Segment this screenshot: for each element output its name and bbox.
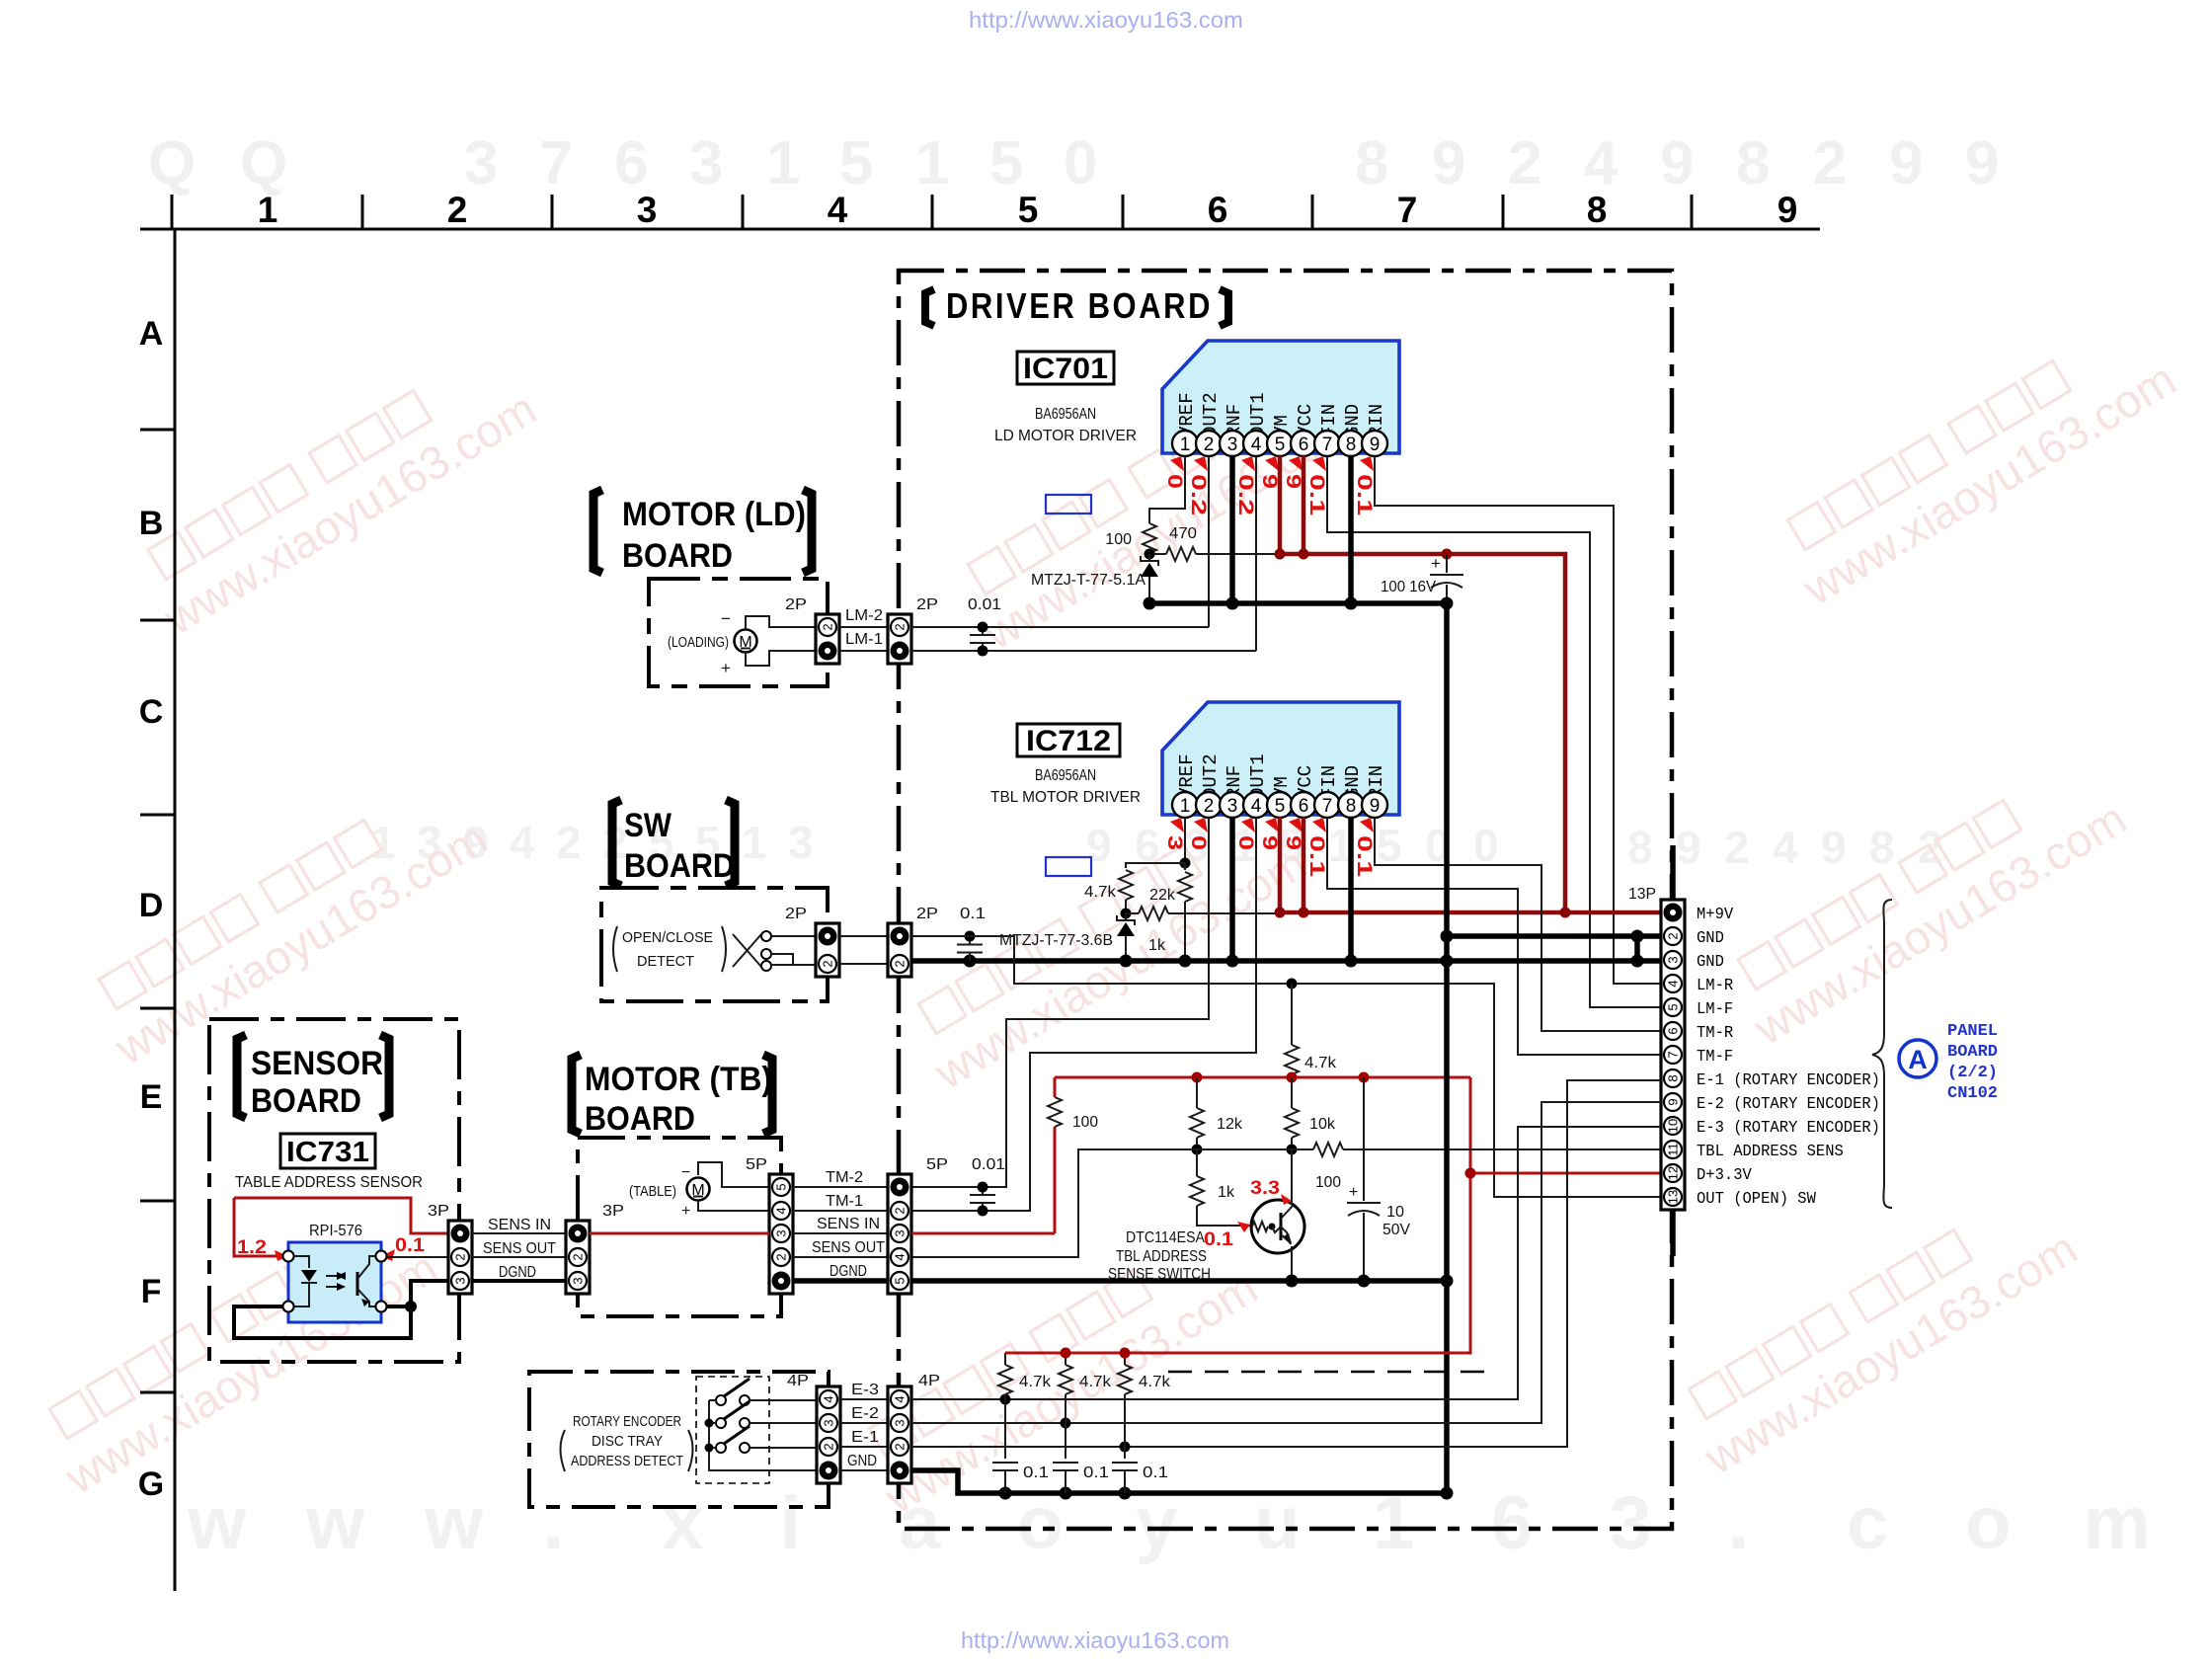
svg-text:2P: 2P [785, 906, 807, 922]
svg-text:.: . [543, 1481, 564, 1565]
svg-text:3P: 3P [602, 1203, 624, 1220]
opto-isolator IC731 RPI-576 [288, 1242, 381, 1322]
wire E-1 to 13P pin8 [911, 1080, 1661, 1447]
wire LM-1 to IC701 OUT1 [911, 650, 1256, 652]
IC712 label box [1017, 724, 1120, 756]
wire IC701 pin5 VM (red) [1278, 456, 1283, 554]
svg-text:2: 2 [822, 1443, 836, 1450]
svg-text:(2/2): (2/2) [1947, 1064, 1998, 1082]
svg-text:A: A [139, 315, 164, 353]
svg-text:BOARD: BOARD [622, 537, 733, 575]
svg-text:4P: 4P [918, 1373, 940, 1389]
svg-text:3: 3 [1610, 1481, 1651, 1565]
svg-text:0.01: 0.01 [972, 1156, 1005, 1173]
resistor 1k (horizontal) [1126, 912, 1139, 914]
svg-text:5: 5 [1275, 796, 1286, 817]
svg-text:http://www.xiaoyu163.com: http://www.xiaoyu163.com [961, 1627, 1229, 1653]
svg-text:2: 2 [774, 1253, 789, 1260]
svg-text:0: 0 [1473, 820, 1499, 871]
svg-text:IC701: IC701 [1023, 353, 1108, 385]
zener diode MTZJ-T-77-3.6B [1117, 915, 1135, 925]
opto LED [288, 1256, 309, 1268]
svg-text:5: 5 [1377, 820, 1402, 871]
encoder switches [716, 1395, 726, 1405]
svg-text:2: 2 [1813, 129, 1847, 198]
pink diagonal watermarks [130, 342, 545, 645]
svg-text:E-3: E-3 [851, 1382, 879, 1398]
svg-text:LD MOTOR DRIVER: LD MOTOR DRIVER [994, 428, 1137, 444]
row letters A-G [138, 315, 164, 1503]
svg-text:3: 3 [893, 1229, 908, 1236]
svg-text:2: 2 [556, 817, 582, 868]
wire IC701 pin4 OUT1 to LM-1 [1255, 456, 1257, 651]
svg-text:0: 0 [1163, 474, 1186, 489]
resistor 4.7k pull-up (SW line) [1291, 984, 1293, 1045]
PANEL BOARD CN102 label [1947, 1022, 1998, 1103]
red wire sensor to 3P SENS IN [234, 1198, 448, 1233]
ground jog to 13P pin2 [1634, 936, 1640, 961]
svg-text:SW: SW [624, 807, 672, 844]
svg-text:3: 3 [689, 129, 723, 198]
IC712 pin names [1176, 753, 1387, 799]
zener diode MTZJ-T-77-5.1A [1141, 556, 1158, 566]
svg-text:5: 5 [839, 129, 873, 198]
svg-text:3: 3 [571, 1277, 586, 1284]
svg-text:9: 9 [1889, 129, 1923, 198]
svg-text:12k: 12k [1217, 1116, 1243, 1133]
svg-text:MOTOR (LD): MOTOR (LD) [622, 496, 806, 533]
svg-text:4.7k: 4.7k [1139, 1374, 1171, 1390]
svg-text:BA6956AN: BA6956AN [1035, 406, 1096, 423]
wire IC712 pin4 OUT1 to TM-1 [911, 818, 1256, 1211]
svg-text:MTZJ-T-77-3.6B: MTZJ-T-77-3.6B [999, 932, 1113, 949]
wire IC712 pin6 VCC (red) [1302, 818, 1306, 912]
svg-text:5: 5 [893, 1277, 908, 1284]
opto light arrows [326, 1275, 344, 1277]
svg-text:3: 3 [1666, 956, 1681, 963]
svg-text:1k: 1k [1218, 1184, 1235, 1201]
transistor collector wire [1291, 1149, 1293, 1205]
red SENS IN riser with resistor 100 [1054, 1127, 1057, 1233]
svg-text:+: + [681, 1203, 690, 1220]
red wire SENS IN from 3P to 5P [590, 1232, 769, 1235]
pull-up resistors 4.7k x3 [1004, 1353, 1006, 1365]
top ruler line [140, 228, 1820, 231]
svg-text:1: 1 [915, 129, 949, 198]
svg-text:1: 1 [1180, 796, 1191, 817]
svg-text:2P: 2P [785, 596, 807, 613]
svg-text:4: 4 [774, 1207, 789, 1214]
svg-text:2P: 2P [916, 906, 938, 922]
svg-text:4: 4 [893, 1395, 908, 1402]
svg-text:8: 8 [1346, 796, 1357, 817]
svg-text:LM-1: LM-1 [845, 631, 883, 648]
svg-text:w: w [424, 1481, 484, 1565]
svg-text:3: 3 [1227, 435, 1238, 455]
svg-text:0.1: 0.1 [1143, 1465, 1168, 1481]
svg-text:TM-1: TM-1 [826, 1193, 863, 1210]
capacitor 10uF 50V [1363, 1077, 1365, 1201]
svg-text:9: 9 [1965, 129, 1999, 198]
svg-text:8: 8 [1587, 190, 1608, 230]
svg-text:TM-R: TM-R [1697, 1023, 1733, 1042]
svg-text:(TABLE): (TABLE) [629, 1183, 676, 1200]
dashed guide line [1168, 1371, 1485, 1374]
svg-text:470: 470 [1169, 525, 1197, 542]
DRIVER BOARD title [925, 289, 934, 326]
svg-text:9: 9 [1282, 474, 1304, 489]
wire E-2 to 13P pin9 [911, 1102, 1661, 1423]
svg-text:2: 2 [821, 623, 835, 630]
svg-text:5P: 5P [926, 1156, 948, 1173]
rotary encoder board outline [529, 1372, 829, 1507]
svg-text:2: 2 [893, 1443, 908, 1450]
wire IC712 pin1 VREF node [1184, 818, 1186, 863]
svg-text:7: 7 [539, 129, 573, 198]
svg-text:5: 5 [774, 1183, 789, 1190]
svg-text:B: B [139, 505, 164, 542]
connector 2P (driver board, SW) [888, 923, 911, 977]
red D+3.3V rail [1055, 1076, 1470, 1079]
svg-text:E: E [140, 1078, 163, 1116]
svg-text:0: 0 [1064, 129, 1097, 198]
op-amp/driver IC U-IC712 BA6956AN block [1162, 702, 1399, 815]
connector 2P (SW board) [816, 923, 839, 977]
svg-text:ADDRESS DETECT: ADDRESS DETECT [571, 1453, 683, 1469]
svg-text:2: 2 [1724, 822, 1750, 873]
svg-text:3.3: 3.3 [1250, 1178, 1280, 1199]
wire IC701 pin8 GND to ground [1348, 456, 1354, 603]
svg-text:0.1: 0.1 [395, 1235, 425, 1256]
svg-text:6: 6 [1491, 1481, 1533, 1565]
svg-text:9: 9 [1666, 1098, 1681, 1105]
svg-text:9: 9 [1282, 835, 1304, 850]
svg-text:TBL ADDRESS: TBL ADDRESS [1116, 1248, 1207, 1265]
svg-text:8: 8 [1666, 1074, 1681, 1081]
svg-text:1: 1 [1180, 435, 1191, 455]
svg-text:9: 9 [1258, 835, 1281, 850]
svg-text:0.2: 0.2 [1234, 474, 1257, 515]
svg-text:8: 8 [1355, 129, 1388, 198]
svg-text:DRIVER BOARD: DRIVER BOARD [946, 285, 1213, 326]
wire LM-2 to IC701 OUT2 [911, 626, 1209, 628]
MOTOR TB BOARD title [572, 1055, 581, 1134]
svg-text:0.1: 0.1 [960, 906, 986, 922]
junction dots on red rail [1275, 549, 1286, 560]
svg-text:SENS IN: SENS IN [817, 1216, 880, 1232]
svg-text:OPEN/CLOSE: OPEN/CLOSE [622, 929, 713, 946]
red wire SENS IN from 5P to riser [911, 1232, 1055, 1235]
svg-text:MOTOR (TB): MOTOR (TB) [585, 1061, 772, 1098]
svg-text:TABLE ADDRESS SENSOR: TABLE ADDRESS SENSOR [235, 1174, 423, 1191]
svg-text:22k: 22k [1149, 887, 1176, 904]
driver board border stubs at 13P [1670, 845, 1676, 902]
SW wires between connectors [839, 935, 888, 937]
faint digit watermark row 2 [370, 817, 1943, 873]
encoder common wire [709, 1400, 817, 1470]
red pull-up rail (D+3.3V) [1005, 1352, 1470, 1355]
svg-text:A: A [1908, 1045, 1928, 1074]
svg-text:2: 2 [893, 623, 908, 630]
IC701 blue ref box [1046, 495, 1091, 514]
svg-text:+: + [721, 659, 731, 677]
wire IC712 pin8 GND to ground [1348, 818, 1354, 961]
svg-text:50V: 50V [1382, 1222, 1410, 1238]
connector 2P (motor LD board) [816, 614, 839, 664]
svg-text:BA6956AN: BA6956AN [1035, 767, 1096, 784]
opto terminals [283, 1251, 294, 1262]
svg-text:0.1: 0.1 [1083, 1465, 1109, 1481]
svg-text:IC731: IC731 [286, 1137, 369, 1168]
svg-text:0.1: 0.1 [1023, 1465, 1049, 1481]
IC701 label box [1017, 352, 1114, 384]
svg-text:0.1: 0.1 [1305, 835, 1328, 877]
svg-text:w: w [305, 1481, 365, 1565]
opto ground loop wire [234, 1281, 448, 1338]
MOTOR LD BOARD title [593, 490, 602, 573]
svg-text:4: 4 [822, 1395, 836, 1402]
svg-text:1.2: 1.2 [237, 1237, 267, 1258]
open/close detect switch label [613, 926, 617, 972]
svg-text:Q: Q [240, 129, 287, 198]
capacitor 0.01 (TM) [982, 1187, 984, 1195]
svg-text:3: 3 [1227, 796, 1238, 817]
svg-text:IC712: IC712 [1026, 725, 1111, 757]
svg-text:5: 5 [989, 129, 1023, 198]
svg-text:E-2: E-2 [851, 1405, 879, 1422]
svg-text:SENS OUT: SENS OUT [483, 1240, 556, 1257]
capacitors 0.1 x3 [1004, 1399, 1006, 1459]
wire IC712 pin2 OUT2 to TM-2 [911, 818, 1209, 1187]
svg-text:10k: 10k [1309, 1116, 1336, 1133]
wire D+3.3V to 13P pin12 (red) [1470, 1172, 1661, 1175]
transistor emitter wire to DGND [1291, 1246, 1293, 1281]
svg-text:Q: Q [148, 129, 196, 198]
svg-text:x: x [662, 1481, 703, 1565]
GND trunk vertical [1444, 603, 1450, 1493]
svg-text:2: 2 [571, 1253, 586, 1260]
svg-text:4: 4 [828, 190, 848, 230]
column numbers 1-9 [258, 190, 1798, 230]
svg-text:4.7k: 4.7k [1304, 1055, 1337, 1071]
svg-text:E-1 (ROTARY ENCODER): E-1 (ROTARY ENCODER) [1697, 1070, 1880, 1089]
svg-text:1k: 1k [1148, 937, 1166, 954]
svg-text:2P: 2P [916, 596, 938, 613]
svg-text:5: 5 [1018, 190, 1039, 230]
svg-text:7: 7 [1397, 190, 1418, 230]
faint giant watermark bottom [187, 1481, 2151, 1565]
connector 5P (TB board) [769, 1174, 793, 1294]
svg-text:9: 9 [1432, 129, 1465, 198]
svg-text:8: 8 [1346, 435, 1357, 455]
svg-text:1: 1 [258, 190, 278, 230]
svg-text:o: o [1965, 1481, 2011, 1565]
E wires between 4P connectors [840, 1398, 888, 1400]
capacitor 0.01 (LM) [982, 627, 984, 635]
svg-text:9: 9 [1370, 435, 1381, 455]
DGND bus [911, 1278, 1447, 1284]
svg-text:3: 3 [774, 1229, 789, 1236]
svg-text:13P: 13P [1628, 886, 1656, 903]
connector 5P (driver board) [888, 1174, 911, 1294]
svg-text:4.7k: 4.7k [1084, 884, 1117, 901]
loading motor wires [746, 616, 816, 630]
svg-text:9: 9 [1821, 822, 1847, 873]
MOTOR TB board outline [578, 1138, 781, 1316]
resistor 4.7k (IC712 VREF) [1119, 870, 1133, 900]
wire IC701 pin7 FIN to LM-F [1327, 456, 1661, 1007]
svg-text:4: 4 [1251, 796, 1262, 817]
svg-text:0.1: 0.1 [1305, 474, 1328, 515]
wire IC701 pin3 RNF to ground [1229, 456, 1235, 603]
svg-text:10: 10 [1666, 1119, 1681, 1133]
svg-text:TBL MOTOR DRIVER: TBL MOTOR DRIVER [990, 789, 1141, 806]
TM/SENS wires between 5P connectors [793, 1186, 888, 1188]
svg-text:CN102: CN102 [1947, 1084, 1998, 1103]
svg-text:2: 2 [1204, 435, 1215, 455]
svg-text:100 16V: 100 16V [1381, 579, 1436, 595]
svg-text:0.2: 0.2 [1187, 474, 1210, 515]
svg-text:GND: GND [847, 1453, 877, 1469]
svg-text:2: 2 [893, 960, 908, 967]
svg-text:2: 2 [1666, 932, 1681, 939]
svg-text:LM-2: LM-2 [845, 607, 883, 624]
resistor 100 (IC701 VREF) [1143, 523, 1156, 553]
svg-text:9: 9 [1258, 474, 1281, 489]
faint digit watermark row 1 [148, 129, 1999, 198]
left border line [174, 229, 177, 1591]
svg-text:4P: 4P [787, 1373, 809, 1389]
IC731 label box [280, 1134, 375, 1168]
opto terminal circles overlay [283, 1251, 294, 1262]
svg-text:PANEL: PANEL [1947, 1022, 1998, 1041]
resistor 12k [1196, 1077, 1198, 1108]
connector 2P (driver board, LM) [888, 614, 911, 664]
node A panel board circle [1899, 1040, 1936, 1077]
svg-text:BOARD: BOARD [1947, 1043, 1998, 1062]
13P signal labels [1697, 905, 1880, 1208]
brace for panel board [1872, 900, 1892, 1208]
svg-text:i: i [780, 1481, 801, 1565]
svg-text:4.7k: 4.7k [1079, 1374, 1112, 1390]
svg-text:6: 6 [614, 129, 648, 198]
svg-text:9: 9 [1777, 190, 1798, 230]
SW BOARD title [612, 800, 621, 886]
svg-text:OUT (OPEN) SW: OUT (OPEN) SW [1697, 1189, 1816, 1208]
resistor 470 [1149, 553, 1166, 555]
svg-text:9: 9 [1086, 820, 1112, 871]
svg-text:0: 0 [1187, 835, 1210, 850]
svg-text:DGND: DGND [829, 1263, 867, 1280]
svg-text:DISC TRAY: DISC TRAY [592, 1433, 663, 1450]
svg-text:4: 4 [893, 1253, 908, 1260]
capacitor 100uF 16V [1446, 554, 1448, 573]
svg-text:−: − [721, 609, 731, 628]
MOTOR LD board outline [649, 579, 828, 686]
connector 13P CN (driver board edge) [1661, 900, 1685, 1210]
SENSOR board outline [209, 1019, 459, 1362]
svg-text:0: 0 [1234, 835, 1257, 850]
IC712 red test-point arrows and voltages [1163, 818, 1376, 877]
svg-text:5P: 5P [746, 1156, 767, 1173]
svg-text:F: F [141, 1273, 162, 1310]
svg-text:RPI-576: RPI-576 [309, 1223, 362, 1239]
open/close switch contacts [761, 931, 771, 941]
svg-text:9: 9 [1370, 796, 1381, 817]
svg-text:3P: 3P [428, 1203, 449, 1220]
svg-text:8: 8 [1736, 129, 1770, 198]
svg-text:m: m [2084, 1481, 2151, 1565]
svg-text:0.1: 0.1 [1353, 474, 1376, 515]
svg-text:BOARD: BOARD [624, 847, 735, 885]
wire IC701 pin9 RIN to LM-R [1375, 456, 1661, 984]
wire encoder GND to ground trunk [911, 1470, 1447, 1493]
ruler ticks [171, 195, 174, 229]
svg-text:DGND: DGND [499, 1264, 536, 1281]
svg-text:3: 3 [893, 1419, 908, 1426]
svg-text:E-2 (ROTARY ENCODER): E-2 (ROTARY ENCODER) [1697, 1094, 1880, 1113]
wire IC712 pin3 RNF to ground [1229, 818, 1235, 961]
red wire 1.2 to opto anode [234, 1198, 278, 1256]
wire SENS OUT from opto [386, 1256, 448, 1258]
resistor 22k [1184, 863, 1186, 870]
SENSOR BOARD title [237, 1035, 246, 1118]
svg-text:10: 10 [1386, 1204, 1404, 1221]
svg-text:0.01: 0.01 [968, 596, 1001, 613]
svg-text:7: 7 [1322, 435, 1333, 455]
node 10k/100/collector [1287, 1145, 1298, 1155]
svg-text:+: + [1349, 1184, 1358, 1201]
svg-text:3: 3 [464, 129, 498, 198]
svg-text:GND: GND [1697, 928, 1724, 947]
wire IC712 pin7 FIN to TM-F [1327, 818, 1661, 1055]
svg-text:9: 9 [1660, 129, 1694, 198]
svg-text:0.1: 0.1 [1353, 835, 1376, 877]
svg-text:4: 4 [1666, 980, 1681, 987]
svg-text:4: 4 [1251, 435, 1262, 455]
svg-text:SENS IN: SENS IN [488, 1217, 551, 1233]
svg-text:G: G [138, 1465, 164, 1503]
svg-text:1: 1 [742, 817, 767, 868]
svg-text:6: 6 [1299, 435, 1309, 455]
svg-text:MTZJ-T-77-5.1A: MTZJ-T-77-5.1A [1031, 572, 1146, 589]
SW board outline [601, 888, 828, 1001]
node VREF/470 junction [1145, 549, 1155, 560]
svg-text:TM-F: TM-F [1697, 1047, 1733, 1066]
svg-text:100: 100 [1105, 531, 1132, 548]
svg-text:M+9V: M+9V [1697, 905, 1733, 923]
svg-text:c: c [1847, 1481, 1888, 1565]
svg-text:w: w [187, 1481, 247, 1565]
rotary encoder switch box (dashed) [696, 1377, 769, 1483]
IC701 red test-point arrows and voltages [1163, 456, 1376, 515]
wire red +9V rail from IC701 to M+9V [1280, 554, 1565, 912]
svg-text:2: 2 [821, 960, 835, 967]
wire SW detect to OUT(OPEN)SW pin13 [911, 936, 1661, 1197]
svg-text:6: 6 [1208, 190, 1228, 230]
svg-text:E-1: E-1 [851, 1429, 879, 1446]
connector 3P (TB board side) [566, 1221, 590, 1294]
svg-text:+: + [1431, 554, 1441, 573]
svg-text:0.1: 0.1 [1204, 1229, 1233, 1250]
table motor wires [698, 1162, 769, 1187]
svg-text:3: 3 [1163, 835, 1186, 850]
svg-text:8: 8 [1627, 822, 1653, 873]
DRIVER BOARD dashed outline [899, 271, 1672, 1529]
wire E-3 to 13P pin10 [911, 1127, 1661, 1399]
red M+9V rail to 13P connector [1280, 911, 1661, 915]
wire IC712 pin9 RIN to TM-R [1375, 818, 1661, 1031]
